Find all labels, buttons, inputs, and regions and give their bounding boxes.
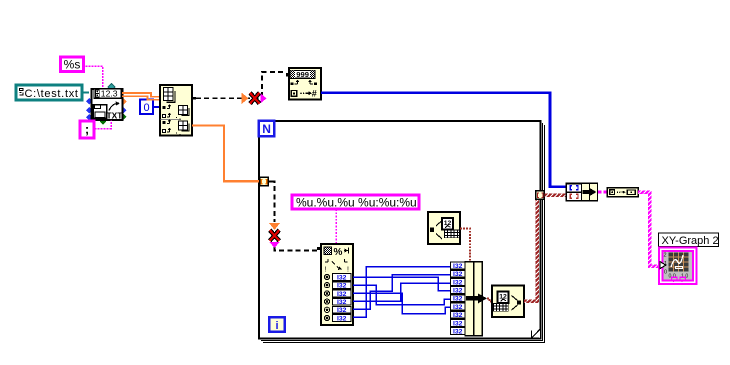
Bundle2 xy node bbox=[566, 183, 598, 201]
node 999 Spreadsheet String To Array bbox=[286, 68, 321, 100]
blue wire field out6 to row1 bbox=[353, 267, 451, 317]
svg-text:0: 0 bbox=[664, 270, 667, 276]
wire %s string to VI bbox=[86, 66, 103, 89]
svg-text:I32: I32 bbox=[453, 296, 463, 303]
wire path teal bbox=[82, 92, 89, 94]
svg-text:C:\test.txt: C:\test.txt bbox=[25, 88, 79, 100]
svg-text:%u.%u.%u %u:%u:%u: %u.%u.%u %u:%u:%u bbox=[296, 196, 417, 210]
svg-text:1,0: 1,0 bbox=[681, 274, 688, 280]
svg-text:I32: I32 bbox=[453, 329, 463, 336]
svg-text:I32: I32 bbox=[337, 274, 347, 281]
blue wire field out5 to row2 bbox=[353, 275, 451, 310]
Date/Time icon 2 Date/Time To Seconds bbox=[492, 286, 524, 318]
svg-text:I32: I32 bbox=[337, 315, 347, 322]
blue wire I32 array to bundle bbox=[321, 93, 566, 187]
cluster wire bundle to icon2 bbox=[487, 298, 492, 301]
blue wire field out2 to row5 bbox=[353, 285, 451, 304]
cluster wire dotted icon1 to bundle column bbox=[460, 229, 470, 263]
XY-Graph 2 terminal bbox=[659, 248, 697, 285]
pink wire to XY graph bbox=[638, 190, 660, 267]
svg-text:I32: I32 bbox=[337, 299, 347, 306]
broken wire top bbox=[192, 72, 286, 104]
XY-Graph 2 label bbox=[659, 233, 719, 247]
Index Array node bbox=[160, 85, 192, 136]
VI U1 Read From Spreadsheet File bbox=[86, 83, 127, 124]
svg-text:2: 2 bbox=[664, 253, 667, 259]
svg-text:I32: I32 bbox=[337, 283, 347, 290]
svg-text:N: N bbox=[262, 122, 271, 136]
svg-text:I32: I32 bbox=[453, 304, 463, 311]
iteration terminal i bbox=[269, 317, 285, 332]
svg-text:%s: %s bbox=[64, 58, 81, 72]
path constant C:\test.txt bbox=[16, 85, 82, 100]
svg-text:12.3: 12.3 bbox=[101, 89, 118, 99]
svg-text:;: ; bbox=[85, 122, 89, 137]
node3 convert bbox=[607, 188, 638, 197]
blue wire field out1 to row4 bbox=[353, 277, 451, 291]
svg-text:I32: I32 bbox=[337, 307, 347, 314]
svg-text:999: 999 bbox=[296, 70, 309, 79]
Date/Time icon 1 Seconds To Date/Time bbox=[428, 212, 460, 244]
cluster array wire outside loop bbox=[545, 194, 567, 198]
loop grow dog-ear corner bbox=[532, 330, 540, 339]
loop tunnel cluster [] bbox=[536, 191, 545, 200]
blue wire field out4 to row3 bbox=[353, 283, 451, 301]
svg-text:!: ! bbox=[347, 267, 349, 274]
orange wire to loop tunnel bbox=[192, 126, 260, 182]
array cluster wire icon2 to tunnel bbox=[524, 199, 539, 303]
Bundle node with 9 I32 inputs bbox=[451, 262, 488, 336]
blue wire field out3 to row6 bbox=[353, 293, 451, 313]
Scan From String node bbox=[317, 244, 353, 325]
2D array wire orange double bbox=[122, 93, 160, 100]
loop tunnel orange [] bbox=[260, 177, 272, 186]
svg-text:XY-Graph 2: XY-Graph 2 bbox=[662, 235, 719, 247]
svg-text:I32: I32 bbox=[453, 312, 463, 319]
svg-text:0,0: 0,0 bbox=[669, 274, 676, 280]
svg-text:I32: I32 bbox=[453, 288, 463, 295]
svg-text:TXT: TXT bbox=[107, 111, 124, 121]
string constant ; bbox=[80, 121, 94, 138]
format string constant bbox=[292, 195, 419, 210]
string constant %s bbox=[61, 57, 84, 72]
svg-text:I32: I32 bbox=[453, 263, 463, 270]
svg-text:0: 0 bbox=[143, 102, 149, 114]
wire ; string bbox=[95, 121, 112, 129]
svg-text:#: # bbox=[312, 89, 317, 99]
svg-text:%: % bbox=[334, 247, 343, 258]
svg-text:I32: I32 bbox=[453, 320, 463, 327]
wire 0 blue bbox=[153, 106, 160, 108]
for loop frame bbox=[259, 121, 545, 343]
numeric constant 0 bbox=[140, 100, 153, 115]
wire format string bbox=[335, 209, 337, 244]
svg-text:i: i bbox=[275, 320, 278, 332]
Scan From String I32 outputs bbox=[324, 274, 351, 323]
svg-text:I32: I32 bbox=[453, 279, 463, 286]
svg-text:I32: I32 bbox=[453, 271, 463, 278]
loop count terminal N bbox=[259, 121, 275, 137]
wire bundle2 to node3 bbox=[598, 191, 607, 194]
broken wire inside loop bbox=[269, 182, 321, 251]
svg-text:I32: I32 bbox=[337, 291, 347, 298]
svg-text:!: ! bbox=[325, 267, 327, 274]
